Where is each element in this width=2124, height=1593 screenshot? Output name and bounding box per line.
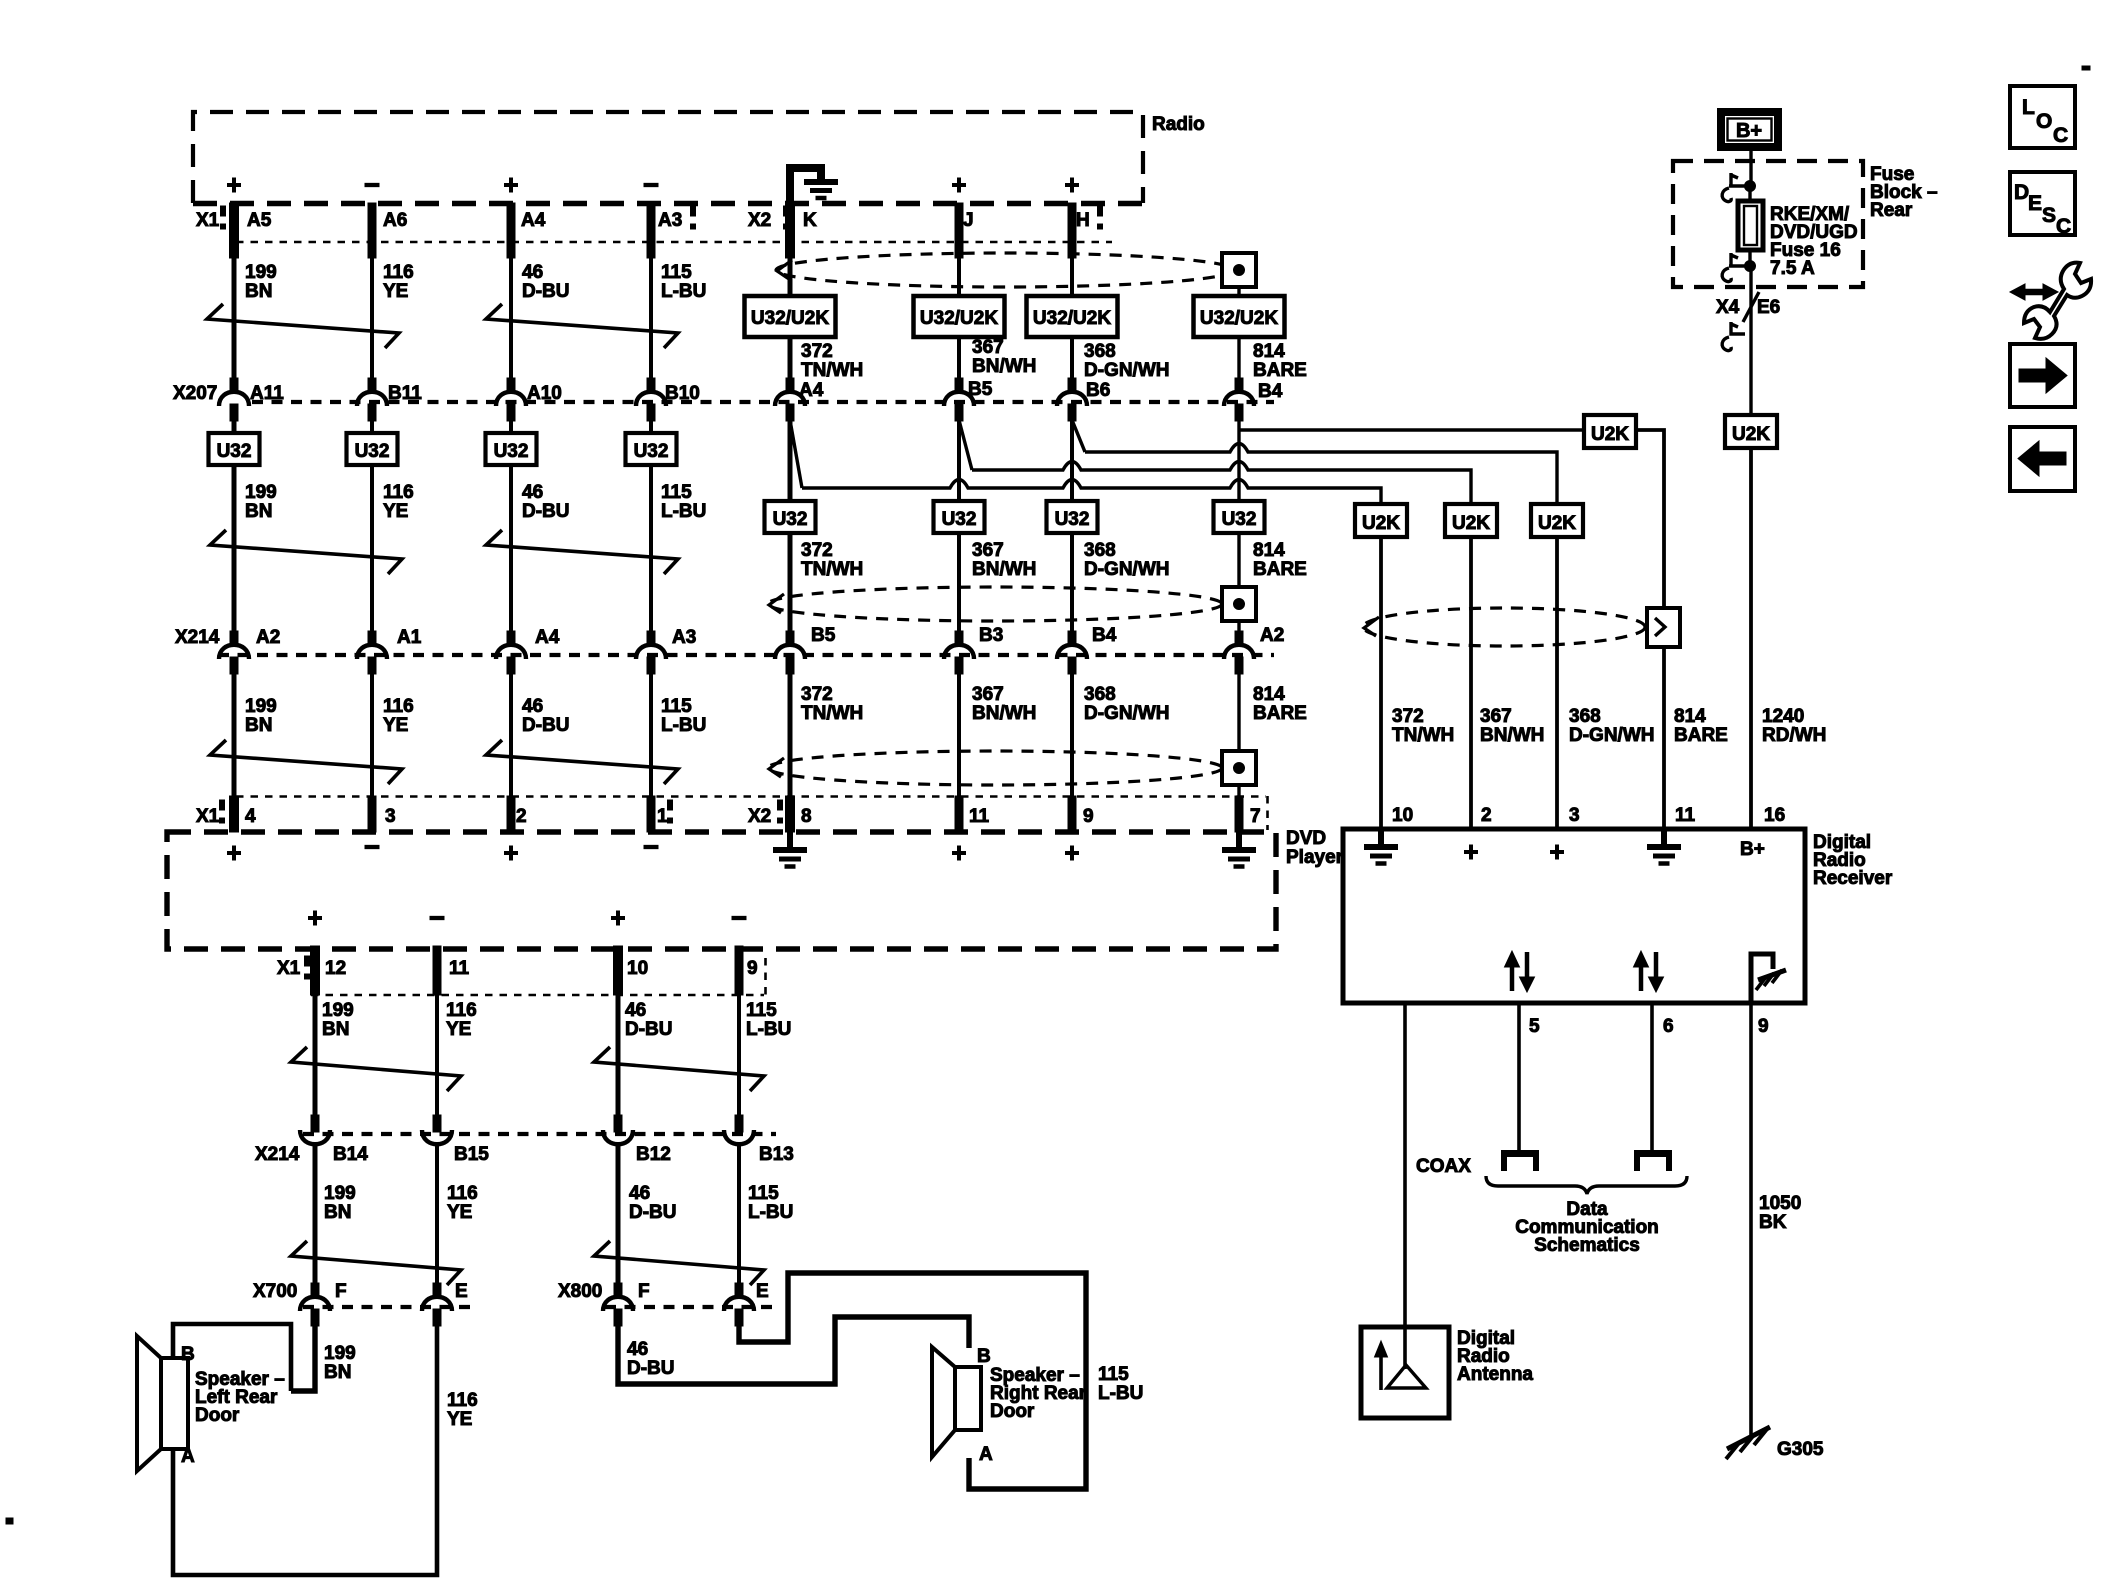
svg-text:X214: X214	[175, 627, 220, 648]
svg-text:D-GN/WH: D-GN/WH	[1084, 703, 1169, 724]
connector X214 pin A3	[647, 631, 655, 644]
svg-text:3: 3	[1569, 805, 1580, 826]
svg-text:G305: G305	[1777, 1439, 1824, 1460]
branch wire 367 BN/WH to U2K (with hops)	[959, 420, 972, 470]
svg-text:Door: Door	[195, 1405, 240, 1426]
wire 372 TN/WH (X214 to DVD X2-8)	[788, 672, 793, 832]
fuse terminal bottom	[1722, 253, 1755, 282]
ground symbol inside DVD player (pin 8)	[773, 832, 807, 867]
svg-text:9: 9	[1758, 1016, 1769, 1037]
svg-text:199: 199	[245, 482, 277, 503]
svg-text:B5: B5	[811, 625, 836, 646]
svg-text:U2K: U2K	[1591, 424, 1629, 445]
svg-text:115: 115	[746, 1000, 777, 1021]
svg-text:L-BU: L-BU	[748, 1202, 793, 1223]
svg-text:46: 46	[522, 482, 543, 503]
wire 116 YE (radio A6 to X207)	[368, 203, 376, 258]
connector X207 row line	[252, 400, 1274, 404]
svg-text:A3: A3	[658, 210, 682, 231]
wire 46 D-BU (X214 to DVD X1-2)	[509, 672, 513, 832]
wire 46 D-BU (X214 to X800)	[616, 1146, 621, 1288]
wire 46 D-BU (DVD 10 to X214)	[616, 995, 621, 1116]
svg-text:D-BU: D-BU	[522, 281, 570, 302]
svg-text:A4: A4	[799, 380, 824, 401]
svg-text:199: 199	[324, 1343, 356, 1364]
svg-text:U32: U32	[634, 441, 669, 462]
svg-text:367: 367	[972, 337, 1004, 358]
svg-text:372: 372	[1392, 706, 1424, 727]
svg-text:B5: B5	[968, 379, 993, 400]
connector X800 pin E	[735, 1283, 743, 1296]
svg-text:D-BU: D-BU	[627, 1358, 675, 1379]
wire 367 BN/WH (U2K to receiver pin 2)	[1469, 537, 1473, 829]
wire 1050 BK (pin 9 to G305)	[1749, 1003, 1753, 1438]
connector X214 pin B14	[311, 1115, 319, 1132]
connector X214 pin A4	[507, 631, 515, 644]
svg-text:A: A	[979, 1444, 993, 1465]
svg-text:Antenna: Antenna	[1457, 1364, 1533, 1385]
svg-text:E: E	[2028, 192, 2042, 215]
svg-text:11: 11	[969, 806, 990, 827]
pin stubs out of DVD player	[311, 946, 320, 995]
svg-text:A4: A4	[521, 210, 546, 231]
svg-text:BN: BN	[322, 1019, 349, 1040]
svg-text:L-BU: L-BU	[746, 1019, 791, 1040]
svg-text:3: 3	[385, 806, 396, 827]
shield ellipse (X207 to X214 segment)	[768, 587, 1222, 621]
svg-text:B12: B12	[636, 1144, 671, 1165]
svg-text:BN: BN	[245, 281, 272, 302]
connector X214 pin A2 (drain)	[1235, 631, 1243, 644]
svg-text:116: 116	[447, 1390, 478, 1411]
svg-text:D-GN/WH: D-GN/WH	[1084, 559, 1169, 580]
svg-text:BN/WH: BN/WH	[972, 559, 1036, 580]
connector X214 pin B13	[735, 1115, 743, 1132]
data link connector symbol (5)	[1501, 1150, 1539, 1171]
wire to data link (pin 5)	[1517, 1003, 1521, 1150]
connector X207 pin A11	[230, 378, 238, 391]
svg-text:116: 116	[383, 696, 414, 717]
svg-text:B4: B4	[1092, 625, 1117, 646]
svg-text:7: 7	[1250, 806, 1261, 827]
svg-text:6: 6	[1663, 1016, 1674, 1037]
connector X214 row line	[218, 653, 1274, 657]
svg-text:A2: A2	[256, 627, 280, 648]
svg-text:116: 116	[447, 1183, 478, 1204]
svg-text:BN/WH: BN/WH	[1480, 725, 1544, 746]
svg-text:B10: B10	[665, 383, 700, 404]
svg-text:F: F	[638, 1281, 650, 1302]
inline connector U32 (372)	[765, 501, 816, 533]
icon arrow right box	[2010, 344, 2075, 407]
fuse terminal top	[1722, 173, 1755, 202]
icon arrow left box	[2010, 427, 2075, 491]
svg-text:B6: B6	[1086, 380, 1110, 401]
svg-text:U32: U32	[1055, 509, 1090, 530]
svg-text:C: C	[2053, 124, 2068, 147]
svg-text:U32: U32	[773, 509, 808, 530]
twisted pair symbol (199/116)	[210, 530, 402, 574]
svg-text:Radio: Radio	[1152, 114, 1205, 135]
svg-text:A11: A11	[250, 383, 284, 404]
inline connector U32 (367)	[934, 501, 985, 533]
svg-text:Receiver: Receiver	[1813, 868, 1893, 889]
inline connector U2K (372)	[1355, 504, 1407, 537]
svg-text:YE: YE	[383, 281, 408, 302]
connector X214 lower row line	[303, 1132, 776, 1136]
shield drain termination box	[1222, 587, 1256, 621]
wire B+ to fuse	[1749, 147, 1752, 186]
svg-text:16: 16	[1764, 805, 1785, 826]
svg-text:367: 367	[1480, 706, 1512, 727]
svg-text:814: 814	[1253, 684, 1285, 705]
svg-text:U32/U2K: U32/U2K	[1033, 308, 1111, 329]
ground symbol inside radio on pin K	[790, 168, 821, 245]
svg-text:U32: U32	[355, 441, 390, 462]
connector row X1/X2 at DVD player	[236, 795, 1266, 798]
wire 199 BN (X214 to X700)	[313, 1146, 318, 1288]
harness terminal below X4	[1722, 322, 1745, 351]
svg-text:115: 115	[1098, 1364, 1129, 1385]
polarity signs inside DVD player (bottom)	[308, 911, 322, 926]
wire 199 BN (X207 to X214)	[232, 419, 237, 644]
svg-text:BN: BN	[245, 501, 272, 522]
svg-text:D-BU: D-BU	[522, 715, 570, 736]
svg-text:A: A	[181, 1446, 195, 1467]
svg-text:367: 367	[972, 540, 1004, 561]
svg-text:YE: YE	[447, 1202, 472, 1223]
svg-text:46: 46	[522, 262, 543, 283]
icon LOC box	[2010, 86, 2075, 148]
wire 199 BN (DVD 12 to X214)	[313, 995, 318, 1116]
svg-text:B: B	[181, 1344, 195, 1365]
wire 116 YE (X214 to DVD X1-3)	[370, 672, 374, 832]
plus sign inside receiver (pin 2)	[1464, 845, 1478, 860]
svg-text:X207: X207	[173, 383, 217, 404]
connector X214 pin B5	[786, 631, 794, 644]
svg-text:E: E	[455, 1281, 468, 1302]
inline connector U2K (814 drain)	[1584, 415, 1636, 448]
svg-text:BN/WH: BN/WH	[972, 703, 1036, 724]
svg-text:B: B	[977, 1346, 991, 1367]
svg-text:A10: A10	[527, 383, 562, 404]
twisted pair symbol (199/116)	[291, 1241, 461, 1285]
wire 115 L-BU (X214 to X800)	[737, 1146, 741, 1288]
connector X207 pin B4	[1235, 378, 1243, 391]
svg-text:B11: B11	[388, 383, 422, 404]
wire 367 BN/WH (radio J to X207)	[955, 203, 963, 258]
wire 116 YE (X207 to X214)	[370, 419, 374, 644]
internal chassis ground (pin 9)	[1751, 954, 1786, 1001]
connector X214 pin B15	[433, 1115, 441, 1132]
svg-text:11: 11	[449, 958, 470, 979]
svg-text:8: 8	[801, 806, 812, 827]
svg-text:YE: YE	[447, 1409, 472, 1430]
inline connector U32 (814)	[1214, 501, 1265, 533]
svg-text:2: 2	[1481, 805, 1492, 826]
svg-text:TN/WH: TN/WH	[801, 703, 863, 724]
svg-text:U2K: U2K	[1732, 424, 1770, 445]
svg-text:A4: A4	[535, 627, 560, 648]
twisted pair symbol (46/115)	[594, 1241, 764, 1285]
svg-text:U32: U32	[1222, 509, 1257, 530]
wire 368 D-GN/WH (X214 to DVD X2-9)	[1070, 672, 1074, 832]
twisted pair symbol (46/115)	[486, 530, 678, 574]
connector X207 pin B11	[368, 378, 376, 391]
svg-text:367: 367	[972, 684, 1004, 705]
inline connector U32 (115)	[626, 433, 677, 465]
wire 116 YE (DVD 11 to X214)	[435, 995, 439, 1116]
DVD player dashed box	[167, 832, 1276, 949]
svg-text:D-BU: D-BU	[522, 501, 570, 522]
svg-text:O: O	[2036, 110, 2052, 133]
svg-text:2: 2	[516, 806, 527, 827]
svg-text:X4: X4	[1716, 297, 1740, 318]
svg-text:199: 199	[324, 1183, 356, 1204]
svg-text:COAX: COAX	[1416, 1156, 1471, 1177]
svg-text:X700: X700	[253, 1281, 297, 1302]
wire 199 BN into left speaker B	[291, 1324, 315, 1391]
pin stubs into DVD player	[230, 796, 239, 832]
svg-text:4: 4	[245, 806, 256, 827]
svg-text:C: C	[2056, 215, 2071, 238]
polarity signs inside DVD player (top)	[227, 846, 241, 861]
ground symbol inside DVD player (pin 7)	[1222, 832, 1256, 867]
wire 372 TN/WH (X207 to X214)	[788, 419, 793, 644]
svg-text:372: 372	[801, 684, 833, 705]
wire 814 BARE (X214 to DVD X2-7)	[1237, 672, 1240, 832]
data arrows symbol (pin 6)	[1634, 951, 1664, 992]
svg-text:X1: X1	[277, 958, 301, 979]
svg-text:U2K: U2K	[1362, 513, 1400, 534]
svg-text:9: 9	[1083, 806, 1094, 827]
shield drain termination box	[1222, 751, 1256, 785]
svg-text:814: 814	[1253, 540, 1285, 561]
inline connector U32/U2K (367)	[914, 296, 1005, 337]
svg-text:E6: E6	[1757, 297, 1780, 318]
svg-text:115: 115	[661, 262, 692, 283]
svg-text:368: 368	[1084, 684, 1116, 705]
svg-text:B3: B3	[979, 625, 1003, 646]
svg-text:11: 11	[1675, 805, 1696, 826]
branch wire 814 BARE drain to U2K	[1239, 428, 1584, 431]
svg-text:BN/WH: BN/WH	[972, 356, 1036, 377]
connector X214 pin A2	[230, 631, 238, 644]
svg-text:46: 46	[629, 1183, 650, 1204]
svg-text:372: 372	[801, 540, 833, 561]
battery feed B+ box	[1721, 112, 1778, 147]
svg-text:B4: B4	[1258, 381, 1283, 402]
svg-text:10: 10	[1392, 805, 1413, 826]
svg-text:X2: X2	[748, 806, 771, 827]
wire 115 L-BU into right speaker A	[739, 1273, 1086, 1489]
svg-text:D: D	[2014, 181, 2029, 204]
svg-text:L-BU: L-BU	[661, 715, 706, 736]
svg-text:J: J	[963, 210, 974, 231]
svg-text:814: 814	[1253, 341, 1285, 362]
wire 115 L-BU (DVD 9 to X214)	[737, 995, 741, 1116]
svg-text:X800: X800	[558, 1281, 602, 1302]
fuse block dashed box	[1673, 161, 1863, 287]
wire 368 D-GN/WH (U2K to receiver pin 3)	[1555, 537, 1559, 829]
svg-text:TN/WH: TN/WH	[1392, 725, 1454, 746]
wire 46 D-BU (radio A4 to X207)	[507, 203, 515, 258]
svg-text:E: E	[756, 1281, 769, 1302]
wire 115 L-BU (radio A3 to X207)	[647, 203, 655, 258]
svg-text:12: 12	[325, 958, 346, 979]
svg-text:D-GN/WH: D-GN/WH	[1569, 725, 1654, 746]
inline connector U32 (116)	[347, 433, 398, 465]
svg-text:A6: A6	[383, 210, 407, 231]
svg-text:BK: BK	[1759, 1212, 1787, 1233]
fuse 16 symbol	[1738, 186, 1763, 266]
svg-text:D-GN/WH: D-GN/WH	[1084, 360, 1169, 381]
inline connector U32/U2K (368)	[1027, 296, 1118, 337]
svg-text:115: 115	[661, 696, 692, 717]
svg-text:L-BU: L-BU	[661, 281, 706, 302]
svg-text:46: 46	[627, 1339, 648, 1360]
svg-text:U32: U32	[217, 441, 252, 462]
wire 115 L-BU (X207 to X214)	[649, 419, 653, 644]
shield drain termination box	[1222, 253, 1256, 287]
antenna triangle symbol	[1387, 1327, 1426, 1388]
svg-text:B+: B+	[1740, 839, 1765, 860]
data arrows symbol (pin 5)	[1505, 951, 1535, 992]
connector X214 pin B4	[1068, 631, 1076, 644]
polarity signs inside radio	[227, 178, 241, 193]
wire 372 TN/WH (U2K to receiver pin 10)	[1379, 537, 1383, 829]
inline connector U32 (368)	[1047, 501, 1098, 533]
connector X207 pin B10	[647, 378, 655, 391]
svg-text:199: 199	[245, 262, 277, 283]
inline connector U32 (46)	[486, 433, 537, 465]
svg-text:U32: U32	[494, 441, 529, 462]
twisted pair symbol (199/116)	[207, 304, 399, 348]
branch wire 368 D-GN/WH to U2K (with hop)	[1072, 420, 1085, 452]
wire 372 TN/WH (radio K to X207)	[788, 245, 793, 391]
svg-text:10: 10	[627, 958, 648, 979]
svg-text:BARE: BARE	[1674, 725, 1728, 746]
connector X800 row line	[605, 1305, 776, 1309]
svg-text:372: 372	[801, 341, 833, 362]
wire 116 YE (X214 to X700)	[435, 1146, 439, 1288]
svg-text:L-BU: L-BU	[661, 501, 706, 522]
svg-text:B+: B+	[1736, 120, 1762, 142]
connector X207 pin A10	[507, 378, 515, 391]
branch wire 372 TN/WH to U2K (with hops)	[790, 420, 802, 488]
svg-text:1: 1	[657, 806, 668, 827]
svg-text:X214: X214	[255, 1144, 300, 1165]
svg-text:U32/U2K: U32/U2K	[1200, 308, 1278, 329]
svg-text:YE: YE	[383, 501, 408, 522]
speaker - right rear door symbol	[932, 1347, 981, 1457]
antenna up arrow	[1375, 1341, 1388, 1390]
svg-text:L: L	[2022, 96, 2035, 119]
digital radio antenna box	[1361, 1327, 1449, 1418]
wire fuse to U2K	[1749, 266, 1752, 415]
svg-text:B15: B15	[454, 1144, 489, 1165]
speaker - left rear door symbol	[137, 1336, 188, 1471]
connector X207 pin B6	[1068, 378, 1076, 391]
svg-text:B13: B13	[759, 1144, 794, 1165]
svg-text:116: 116	[383, 262, 414, 283]
svg-text:Player: Player	[1286, 847, 1344, 868]
svg-text:U32/U2K: U32/U2K	[751, 308, 829, 329]
wire 115 L-BU (X214 to DVD X1-1)	[649, 672, 653, 832]
svg-text:X1: X1	[196, 210, 220, 231]
connector X207 pin B5	[955, 378, 963, 391]
svg-text:TN/WH: TN/WH	[801, 360, 863, 381]
svg-text:368: 368	[1084, 540, 1116, 561]
icon DESC box	[2010, 172, 2075, 238]
svg-text:A2: A2	[1260, 625, 1284, 646]
svg-text:199: 199	[322, 1000, 354, 1021]
drain wire 814 BARE (to X207)	[1237, 287, 1240, 391]
ground G305	[1726, 1427, 1770, 1459]
inline connector U32/U2K (814)	[1194, 296, 1285, 337]
svg-text:YE: YE	[446, 1019, 471, 1040]
svg-text:BN: BN	[324, 1362, 351, 1383]
COAX wire to antenna	[1403, 1003, 1407, 1327]
svg-text:368: 368	[1569, 706, 1601, 727]
wire 367 BN/WH (X214 to DVD X2-11)	[957, 672, 961, 832]
svg-text:Door: Door	[990, 1401, 1035, 1422]
svg-text:D-BU: D-BU	[629, 1202, 677, 1223]
connector X700 row line	[303, 1305, 471, 1309]
svg-text:H: H	[1076, 210, 1090, 231]
svg-text:1050: 1050	[1759, 1193, 1801, 1214]
svg-text:U2K: U2K	[1538, 513, 1576, 534]
svg-text:BARE: BARE	[1253, 559, 1307, 580]
twisted pair symbol (46/115)	[594, 1047, 764, 1091]
svg-text:U2K: U2K	[1452, 513, 1490, 534]
svg-text:115: 115	[748, 1183, 779, 1204]
wire 368 D-GN/WH (radio H to X207)	[1068, 203, 1076, 258]
svg-text:D-BU: D-BU	[625, 1019, 673, 1040]
svg-text:L-BU: L-BU	[1098, 1383, 1143, 1404]
inline connector U2K (1240)	[1725, 415, 1777, 448]
svg-text:S: S	[2042, 204, 2056, 227]
svg-text:U32/U2K: U32/U2K	[920, 308, 998, 329]
svg-text:46: 46	[522, 696, 543, 717]
connector X214 pin B12	[614, 1115, 622, 1132]
svg-text:BARE: BARE	[1253, 360, 1307, 381]
plus sign inside receiver (pin 3)	[1550, 845, 1564, 860]
svg-text:BN: BN	[245, 715, 272, 736]
shield ellipse (receiver cable)	[1363, 608, 1645, 646]
connector X700 pin E	[433, 1283, 441, 1296]
svg-text:U32: U32	[942, 509, 977, 530]
connector X800 pin F	[614, 1283, 622, 1296]
shield ellipse (radio X2 shielded cable)	[776, 253, 1234, 287]
icon wrench with arrows	[2010, 263, 2091, 339]
svg-text:X2: X2	[748, 210, 771, 231]
svg-text:1240: 1240	[1762, 706, 1804, 727]
svg-text:115: 115	[661, 482, 692, 503]
svg-text:116: 116	[383, 482, 414, 503]
svg-text:Rear: Rear	[1870, 200, 1913, 221]
radio component dashed box	[193, 112, 1143, 203]
svg-text:116: 116	[446, 1000, 477, 1021]
twisted pair symbol (199/116)	[210, 740, 402, 784]
svg-text:46: 46	[625, 1000, 646, 1021]
svg-text:F: F	[335, 1281, 347, 1302]
corner tick marks	[2082, 66, 2090, 70]
wire to data link (pin 6)	[1650, 1003, 1654, 1150]
svg-text:BARE: BARE	[1253, 703, 1307, 724]
shield termination box on drain	[1647, 608, 1680, 647]
wire 814 BARE (X207 to X214)	[1237, 419, 1240, 644]
